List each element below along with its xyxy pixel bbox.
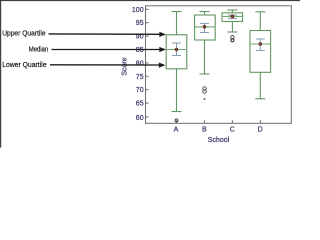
svg-text:Upper Quartile: Upper Quartile — [2, 29, 45, 38]
y tick 75 — [146, 75, 149, 77]
svg-text:C: C — [230, 127, 235, 134]
box A whisker lower cap — [172, 111, 182, 113]
svg-text:95: 95 — [136, 20, 144, 27]
svg-text:75: 75 — [136, 74, 144, 81]
box B outlier circle 2 — [203, 90, 207, 94]
svg-text:60: 60 — [136, 115, 144, 122]
y tick 80 — [146, 62, 149, 64]
x tick labels — [174, 127, 263, 134]
box A error bar top cap — [172, 42, 181, 44]
box D error bar bottom cap — [256, 50, 265, 52]
box A whisker lower — [176, 69, 178, 112]
annotation Median arrow — [52, 49, 161, 51]
x tick B — [204, 120, 206, 123]
box C error bar vertical — [231, 15, 233, 19]
box D error bar vertical — [259, 39, 261, 51]
box A outlier circle — [175, 119, 178, 122]
svg-text:A: A — [174, 127, 179, 134]
annotation Upper Quartile arrow — [49, 33, 161, 35]
box B mean dot — [203, 25, 206, 28]
box C median line — [222, 15, 243, 17]
box C whisker lower cap — [227, 31, 237, 33]
box D whisker upper cap — [255, 11, 265, 13]
outer top border — [0, 0, 300, 2]
plot frame — [146, 6, 292, 124]
svg-text:70: 70 — [136, 87, 144, 94]
box C whisker upper cap — [227, 9, 237, 11]
box B outlier circle 1 — [203, 87, 207, 91]
box A mean dot — [175, 48, 178, 51]
y tick 70 — [146, 89, 149, 91]
x tick D — [259, 120, 261, 123]
svg-text:School: School — [208, 137, 230, 144]
box C outlier circle — [231, 36, 235, 40]
box C outlier dot — [231, 39, 234, 42]
svg-text:Score: Score — [122, 57, 129, 75]
box C whisker upper — [231, 10, 233, 13]
box C whisker lower — [231, 22, 233, 33]
svg-text:65: 65 — [136, 101, 144, 108]
box B whisker upper cap — [200, 11, 210, 13]
box A error bar vertical — [176, 43, 178, 56]
y tick labels — [132, 7, 144, 122]
box B error bar top cap — [200, 22, 209, 24]
y tick 95 — [146, 22, 149, 24]
box B whisker lower — [204, 40, 206, 74]
box C rect — [222, 13, 243, 22]
box B rect — [195, 15, 216, 40]
box C mean dot — [231, 15, 234, 18]
y tick 100 — [146, 8, 149, 10]
box B whisker lower cap — [200, 73, 210, 75]
svg-text:Lower Quartile: Lower Quartile — [2, 60, 46, 69]
box A error bar bottom cap — [172, 55, 181, 57]
box D median line — [250, 43, 271, 45]
box A whisker upper cap — [172, 11, 182, 13]
svg-text:80: 80 — [136, 60, 144, 67]
svg-text:85: 85 — [136, 47, 144, 54]
box B error bar bottom cap — [200, 32, 209, 34]
box C error bar bottom cap — [228, 18, 237, 20]
annotation Lower Quartile arrow — [50, 64, 160, 66]
x tick C — [231, 120, 233, 123]
x tick A — [176, 120, 178, 123]
y tick 65 — [146, 102, 149, 104]
outer left border — [0, 0, 2, 148]
box A median line — [166, 49, 187, 51]
svg-text:B: B — [202, 127, 207, 134]
box D mean dot — [259, 43, 262, 46]
box B error bar vertical — [204, 23, 206, 32]
box A whisker upper — [176, 12, 178, 35]
box B outlier dot — [204, 98, 206, 100]
svg-text:D: D — [258, 127, 263, 134]
svg-text:100: 100 — [132, 7, 144, 14]
box B whisker upper — [204, 12, 206, 16]
y tick 90 — [146, 35, 149, 37]
box A rect — [166, 35, 187, 69]
y tick 85 — [146, 49, 149, 51]
box D whisker upper — [259, 12, 261, 31]
box D whisker lower cap — [255, 98, 265, 100]
svg-text:Median: Median — [29, 44, 48, 53]
box D rect — [250, 31, 271, 73]
box D error bar top cap — [256, 38, 265, 40]
box D whisker lower — [259, 72, 261, 99]
box B median line — [195, 26, 216, 28]
box C error bar top cap — [228, 14, 237, 16]
y tick 60 — [146, 116, 149, 118]
